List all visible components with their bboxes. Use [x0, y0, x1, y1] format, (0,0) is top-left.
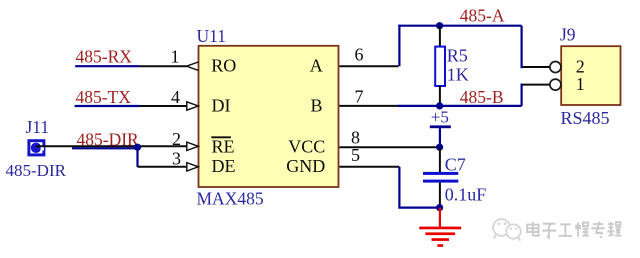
pin 5 lead of U11 (GND): [340, 166, 400, 168]
svg-text:485-DIR: 485-DIR: [77, 129, 140, 149]
wire riser from pin6 to 485-A rail: [398, 25, 400, 67]
pin 1 output arrow at RO: [187, 62, 199, 71]
svg-text:7: 7: [355, 87, 364, 107]
svg-text:1: 1: [171, 47, 180, 67]
svg-text:B: B: [310, 95, 322, 115]
ground symbol bar 4: [437, 244, 443, 247]
wire stub to J9 pin 2 (black): [523, 66, 550, 68]
connector J9 body: [561, 46, 620, 105]
wire net 485-TX (blue): [75, 105, 140, 107]
junction at R5 top: [436, 22, 443, 29]
pin 7 lead of U11 (B): [340, 105, 399, 107]
svg-text:5: 5: [351, 145, 360, 165]
capacitor C7 bottom lead: [439, 183, 441, 208]
wire 485-A drop to J9 pin 2: [522, 26, 523, 67]
svg-text:RS485: RS485: [561, 108, 610, 128]
svg-text:DI: DI: [212, 95, 231, 115]
svg-text:2: 2: [172, 129, 181, 149]
svg-text:U11: U11: [197, 26, 227, 46]
junction at VCC node: [436, 144, 443, 151]
wire net 485-B: [398, 105, 522, 107]
svg-text:3: 3: [172, 148, 181, 168]
wire net 485-DIR (blue overlay): [72, 147, 138, 149]
svg-text:J11: J11: [26, 117, 50, 137]
svg-text:485-DIR: 485-DIR: [6, 161, 67, 180]
pin 6 lead of U11 (A): [340, 65, 399, 67]
svg-text:GND: GND: [286, 156, 325, 176]
wire net 485-A top rail: [398, 25, 521, 27]
svg-text:485-A: 485-A: [460, 6, 505, 26]
pin 1 lead of U11: [139, 65, 187, 67]
svg-text:VCC: VCC: [288, 136, 325, 156]
svg-text:RO: RO: [211, 56, 236, 76]
watermark logo: chat bubbles: [493, 219, 521, 241]
svg-text:6: 6: [355, 45, 364, 65]
svg-text:DE: DE: [212, 156, 236, 176]
svg-text:RE: RE: [212, 136, 235, 156]
svg-text:MAX485: MAX485: [197, 188, 264, 208]
svg-text:R5: R5: [447, 46, 468, 66]
svg-text:485-B: 485-B: [460, 87, 504, 107]
ground symbol bar 3: [432, 238, 450, 241]
capacitor C7 top plate: [423, 172, 458, 175]
svg-text:0.1uF: 0.1uF: [445, 185, 487, 205]
svg-text:C7: C7: [445, 155, 466, 175]
junction at 485-DIR split: [134, 144, 141, 151]
resistor R5 body: [435, 47, 445, 86]
ground symbol bar 2: [425, 232, 455, 235]
pin 4 lead of U11: [140, 105, 187, 107]
svg-text:J9: J9: [560, 24, 576, 44]
svg-text:485-TX: 485-TX: [76, 87, 132, 107]
wire stub to J9 pin 1 (black): [523, 84, 550, 86]
IC U11 body (MAX485 transceiver): [199, 46, 339, 187]
svg-text:4: 4: [171, 87, 180, 107]
J9 pin 1 circle: [550, 79, 561, 90]
pin 4 input triangle at DI: [187, 102, 199, 110]
svg-text:485-RX: 485-RX: [76, 47, 133, 67]
svg-text:1: 1: [576, 74, 585, 94]
wire 485-B rise to J9 pin 1: [522, 85, 523, 106]
overline of RE: [211, 136, 231, 138]
svg-text:+5: +5: [431, 107, 449, 126]
capacitor C7 bottom plate: [423, 180, 458, 183]
svg-text:1K: 1K: [447, 65, 469, 85]
wire GND net down: [398, 167, 400, 208]
watermark text (simplified CJK strokes): [527, 222, 621, 238]
pin 8 lead of U11 (VCC): [340, 146, 440, 148]
resistor R5 bottom lead: [439, 86, 441, 106]
resistor R5 top lead: [439, 26, 441, 47]
power +5 bar: [430, 125, 451, 128]
svg-text:A: A: [310, 56, 323, 76]
ground symbol stem: [439, 208, 441, 227]
capacitor C7 top lead: [439, 147, 441, 172]
pin 3 input triangle at DE: [187, 163, 199, 171]
connector J11 symbol: [29, 141, 44, 155]
junction at GND node: [436, 204, 443, 211]
J9 pin 2 circle: [550, 62, 561, 73]
wire 485-DIR vertical to DE: [136, 147, 138, 167]
junction at R5 bottom: [436, 102, 443, 109]
pin 2 input triangle at RE: [187, 142, 199, 150]
ground symbol bar 1: [419, 227, 461, 230]
wire net 485-RX (blue): [75, 65, 139, 67]
wire/pin lead from J11 to RE (black): [36, 145, 187, 147]
wire GND net right: [398, 207, 440, 209]
power +5 stem: [439, 128, 441, 147]
pin 3 lead of U11: [138, 166, 188, 168]
